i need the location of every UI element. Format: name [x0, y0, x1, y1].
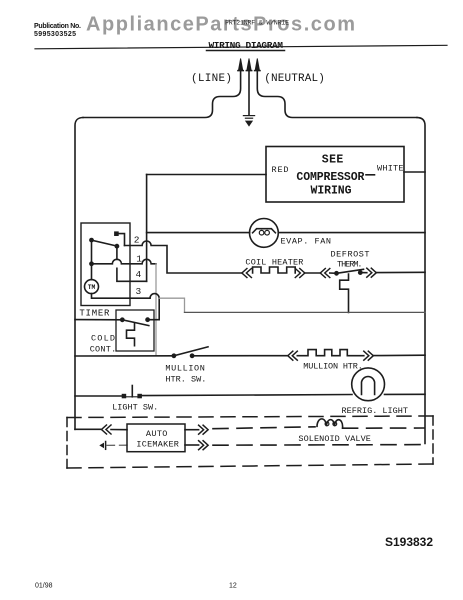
timer pivot contact [89, 238, 94, 243]
connector chevron mullion left [288, 351, 298, 360]
wire: dashed to solenoid coil [213, 427, 315, 429]
wire: icemaker bottom output [185, 444, 199, 446]
timer contact square (fan feed) [114, 231, 119, 236]
cold control sensor step [127, 324, 135, 346]
icemaker ground arrow symbol [99, 443, 104, 449]
wire: light line to lamp [142, 395, 352, 396]
wire: lower contact to TM motor [91, 264, 93, 280]
wire: dashed coil to bus [343, 427, 424, 429]
light switch left contact [122, 394, 127, 399]
svg-text:(LINE): (LINE) [191, 73, 232, 85]
wire: outer left edge [75, 118, 83, 430]
refrigerator light lamp circle [352, 368, 385, 401]
evap fan motor circle [250, 219, 279, 248]
wire: contact jog to terminal 2 [119, 234, 125, 246]
wire: terminal 3 hop over gray [150, 294, 159, 299]
connector chevron defrost left [320, 269, 330, 278]
wire: pivot down to lower contact [91, 240, 93, 264]
dashed enclosure right [432, 416, 434, 464]
connector chevron solenoid [199, 425, 209, 434]
wire: chevron to icemaker box [111, 429, 127, 431]
wire: evap fan to bus [278, 232, 425, 234]
wire: icemaker top output [185, 429, 199, 431]
connector chevron icemaker return [199, 441, 209, 450]
svg-text:4: 4 [136, 269, 142, 280]
evap fan winding symbol [253, 229, 276, 233]
wire: outer top edge right with neutral curve [257, 71, 417, 118]
svg-text:01/98: 01/98 [35, 583, 53, 590]
defrost therm left contact [334, 271, 339, 276]
coil heater element [253, 267, 296, 273]
svg-text:12: 12 [229, 583, 237, 590]
solenoid valve coil L1 [317, 419, 343, 428]
dashed enclosure top [67, 416, 433, 418]
defrost therm actuator bracket [340, 274, 349, 312]
mullion heater element [297, 350, 364, 356]
wire: gray drop terminal 1 to mullion [155, 264, 157, 356]
plug prong arrowhead neutral [255, 59, 259, 71]
svg-text:CONT.: CONT. [90, 344, 117, 354]
connector chevron coil heater left [242, 269, 252, 278]
plug prong arrowhead line [239, 59, 243, 71]
mullion switch right contact [190, 353, 195, 358]
connector chevron defrost right [367, 268, 377, 277]
wire: lamp to bus [385, 393, 426, 395]
defrost therm blade [337, 269, 364, 273]
svg-text:WHITE: WHITE [377, 164, 404, 174]
lamp filament [362, 377, 375, 395]
svg-text:TM: TM [88, 284, 96, 291]
wire: icemaker feed from left edge [75, 428, 102, 430]
svg-text:COMPRESSOR: COMPRESSOR [296, 171, 364, 184]
svg-text:REFRIG. LIGHT: REFRIG. LIGHT [342, 406, 409, 416]
wire: light line left [75, 395, 122, 397]
svg-text:AppliancePartsPros.com: AppliancePartsPros.com [86, 14, 355, 36]
svg-text:SOLENOID VALVE: SOLENOID VALVE [298, 434, 371, 444]
wire: defrost therm to bus [376, 271, 425, 273]
wire: terminal 3 gray continuation [159, 298, 184, 312]
wire: terminal 2 run with hop [125, 241, 242, 273]
timer blade tip contact [115, 244, 120, 249]
timer motor TM [85, 280, 99, 294]
cold control left contact [120, 317, 125, 322]
wire: defrost contact to chevron [360, 272, 367, 274]
wire: chevron to defrost contact [330, 272, 337, 274]
wire: terminal 4 branch [117, 246, 147, 281]
auto icemaker box [127, 424, 185, 452]
wire: mullion line left [75, 355, 174, 357]
wire: cold control pickup [150, 298, 159, 320]
wire: dashed ground stub to icemaker [107, 444, 128, 446]
svg-text:FRT21NRF & W/NR1E: FRT21NRF & W/NR1E [225, 20, 289, 27]
svg-text:5995303525: 5995303525 [34, 31, 76, 38]
mullion switch blade [174, 347, 208, 356]
plug prong arrowhead center [247, 59, 251, 71]
svg-text:WIRING DIAGRAM: WIRING DIAGRAM [209, 40, 284, 51]
cold control blade [122, 320, 149, 326]
svg-text:(NEUTRAL): (NEUTRAL) [264, 73, 325, 85]
wire: timer motor line to bus [185, 311, 426, 313]
wire: TM motor down to terminal 3 run [92, 294, 151, 299]
wire: terminal 1 run with hops [92, 259, 157, 264]
wire: cold control to left edge [75, 319, 122, 321]
ground symbol [243, 116, 254, 127]
svg-text:WIRING: WIRING [311, 185, 352, 198]
svg-text:RED: RED [272, 165, 289, 175]
wire: outer right edge / neutral bus [417, 118, 425, 444]
header rule [35, 45, 447, 49]
wire: outer top edge left with plug line curve [83, 71, 241, 118]
timer box [81, 223, 130, 306]
timer switch blade [92, 240, 118, 246]
cold control box [116, 310, 154, 351]
wire: main vertical feed [146, 175, 148, 282]
wire: mullion heater to bus [373, 354, 425, 356]
connector chevron coil heater right [295, 269, 305, 278]
timer lower contact [89, 261, 94, 266]
svg-text:S193832: S193832 [385, 535, 433, 549]
dashed enclosure left [66, 418, 68, 469]
svg-text:EVAP. FAN: EVAP. FAN [281, 236, 332, 246]
svg-text:DEFROST: DEFROST [331, 250, 370, 260]
cold control right contact [145, 317, 150, 322]
wire: evap fan branch [147, 232, 250, 234]
compressor box U1 [266, 147, 404, 203]
wire: mullion line to heater [192, 355, 288, 357]
defrost therm right contact [358, 270, 363, 275]
title underline [207, 50, 285, 52]
svg-text:MULLION: MULLION [165, 364, 205, 374]
dash after COMPRESSOR [366, 174, 375, 176]
svg-text:AUTO: AUTO [146, 429, 168, 439]
wire: dashed return to bus [213, 444, 424, 447]
mullion switch left contact [172, 353, 177, 358]
svg-text:LIGHT SW.: LIGHT SW. [112, 403, 158, 413]
svg-text:THERM.: THERM. [337, 260, 363, 270]
svg-text:2: 2 [134, 234, 140, 245]
wire: coil heater to defrost therm [305, 272, 321, 274]
svg-text:MULLION HTR.: MULLION HTR. [303, 361, 363, 371]
connector chevron icemaker feed [102, 425, 112, 434]
svg-text:SEE: SEE [322, 154, 344, 167]
connector chevron mullion right [364, 351, 374, 360]
light switch plunger [131, 386, 133, 397]
svg-text:COLD: COLD [91, 333, 115, 343]
svg-text:COIL HEATER: COIL HEATER [245, 258, 303, 268]
svg-text:ICEMAKER: ICEMAKER [136, 440, 179, 450]
wire: light switch gap segment [126, 396, 138, 398]
light switch right contact [137, 394, 142, 399]
dashed enclosure bottom [67, 464, 433, 468]
svg-text:Publication No.: Publication No. [34, 23, 81, 30]
wire: white compressor to bus [404, 171, 425, 173]
svg-text:HTR. SW.: HTR. SW. [165, 374, 206, 384]
wire: ground prong stem [248, 71, 250, 115]
wire: red compressor feed [147, 174, 266, 176]
svg-text:TIMER: TIMER [79, 309, 110, 319]
svg-text:3: 3 [136, 286, 142, 297]
